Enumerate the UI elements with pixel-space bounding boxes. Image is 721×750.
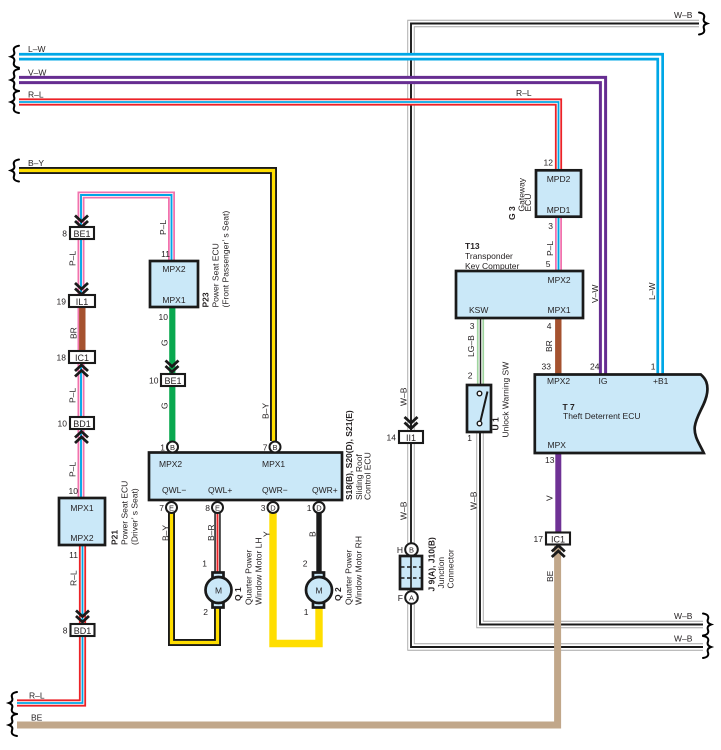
wire LG-B KSW to U1 [477,318,484,386]
svg-text:V–W: V–W [590,285,600,303]
wire R-L horizontal to MPD2 [19,102,559,171]
wire R-L bottom left from P21 [17,545,83,703]
svg-text:G: G [160,339,170,346]
svg-text:Quarter Power: Quarter Power [244,550,254,605]
svg-text:Window Motor LH: Window Motor LH [254,537,264,605]
chevron down above II1 [405,417,418,429]
svg-text:BR: BR [544,340,554,352]
svg-text:W–B: W–B [399,501,409,520]
svg-text:Quarter Power: Quarter Power [344,550,354,605]
svg-text:IC1: IC1 [551,535,565,545]
svg-text:QWL+: QWL+ [208,485,232,495]
svg-text:Key Computer: Key Computer [465,261,519,271]
svg-text:E: E [169,503,174,512]
svg-text:+B1: +B1 [653,376,669,386]
chevron down above BE1-2 green [166,361,179,373]
svg-text:1: 1 [467,433,472,443]
svg-text:7: 7 [159,503,164,513]
svg-text:11: 11 [161,249,170,259]
svg-text:BE: BE [545,570,555,582]
chevron down above IL1 [75,283,88,295]
squiggle R-L bottom left [9,692,17,714]
connector IC1 [57,351,95,363]
label S18 title [344,410,373,500]
connector BE1-2 [149,374,185,386]
box U1 Unlock Warning SW [467,371,491,444]
svg-text:24: 24 [590,362,600,372]
svg-text:M: M [315,586,322,596]
wire B QWR+ to motor Q2 top [316,512,321,574]
svg-text:2: 2 [303,559,308,569]
svg-text:B: B [170,443,175,452]
svg-text:MPX1: MPX1 [262,459,285,469]
wire V-W horizontal and vertical to IG [19,80,603,375]
svg-text:18: 18 [57,353,67,363]
svg-text:2: 2 [203,607,208,617]
svg-text:10: 10 [69,486,79,496]
svg-text:W–B: W–B [674,634,693,644]
svg-text:MPX2: MPX2 [70,533,93,543]
svg-text:R–L: R–L [29,691,45,701]
label Q1 title [233,537,264,605]
pin circle D2 [307,502,325,513]
wire L-W horizontal top and vertical to +B1 [19,57,660,375]
svg-text:V: V [545,495,555,501]
motor Q1 [202,559,231,618]
svg-text:12: 12 [544,158,554,168]
squiggle W-B top right [699,13,707,35]
wire Y QWR- to motor Q2 bottom [273,512,319,644]
svg-text:Q 1: Q 1 [233,587,243,601]
svg-text:33: 33 [542,362,552,372]
svg-text:M: M [215,586,222,596]
chevron down above BD1-2 [76,611,89,623]
chevron up below BD1 [75,432,88,444]
wire BE IC1 to bottom horizontal [17,546,558,725]
svg-text:IL1: IL1 [76,297,89,307]
svg-text:(Driver’ s Seat): (Driver’ s Seat) [130,488,140,545]
chevron up below IC1 [75,365,88,377]
squiggle L-W left [11,46,19,68]
svg-text:Transponder: Transponder [465,251,513,261]
svg-text:3: 3 [261,503,266,513]
wire W-B U1 to bottom right [480,431,703,625]
svg-text:BE1: BE1 [164,376,181,386]
svg-text:R–L: R–L [69,570,79,586]
svg-text:MPX: MPX [548,440,567,450]
svg-text:P–L: P–L [68,388,78,403]
pin circle B1 [160,442,178,453]
svg-text:1: 1 [202,559,207,569]
svg-text:13: 13 [545,455,555,465]
svg-text:7: 7 [263,443,268,453]
svg-text:R–L: R–L [28,90,44,100]
svg-text:MPD1: MPD1 [547,205,571,215]
svg-text:1: 1 [307,503,312,513]
svg-text:5: 5 [546,259,551,269]
chevron up below IC1-2 [552,546,565,558]
squiggle R-L left [11,91,19,113]
label P23 title [201,210,231,307]
svg-text:B–Y: B–Y [161,525,171,541]
wire B-Y QWL- to motor Q1 bottom [172,512,218,643]
squiggle V-W left [11,69,19,91]
svg-text:A: A [409,594,414,603]
svg-text:B: B [308,531,318,537]
svg-text:1: 1 [304,607,309,617]
wire W-B top horizontal and vertical to II1/junction [411,24,703,648]
box P23 Power Seat ECU (Front Passenger's Seat) [150,249,198,322]
svg-text:MPX1: MPX1 [548,305,571,315]
svg-text:B–Y: B–Y [28,158,44,168]
svg-text:J 9(A), J10(B): J 9(A), J10(B) [427,537,437,591]
svg-text:10: 10 [58,419,68,429]
svg-text:Control ECU: Control ECU [363,452,373,500]
svg-text:D: D [270,503,276,512]
svg-text:IC1: IC1 [75,353,89,363]
connector IL1 [57,295,95,307]
svg-text:P23: P23 [201,292,211,307]
svg-text:ECU: ECU [523,194,533,212]
svg-text:W–B: W–B [399,387,409,406]
box S18 Sliding Roof Control ECU [149,453,342,501]
svg-text:MPX2: MPX2 [162,264,185,274]
svg-text:MPX2: MPX2 [547,376,570,386]
chevron down above BE1 [75,216,88,228]
svg-text:B: B [409,546,414,555]
svg-text:2: 2 [468,371,473,381]
wire P-L left chain vertical [81,195,172,498]
svg-text:19: 19 [57,297,67,307]
svg-text:L–W: L–W [647,283,657,300]
svg-text:Y: Y [262,531,272,537]
connector IC1-2 [534,533,570,545]
svg-text:MPD2: MPD2 [547,174,571,184]
svg-text:MPX2: MPX2 [548,275,571,285]
pin circle B2 [263,442,281,453]
squiggle W-B right upper [703,614,711,636]
wire G green P23 to BE1 to pin1(B) [169,306,175,443]
svg-text:Unlock Warning SW: Unlock Warning SW [501,362,511,438]
connector II1 [387,431,423,443]
svg-text:R–L: R–L [516,88,532,98]
pin circle E2 [205,502,223,513]
box T13 Transponder Key Computer [456,259,583,331]
svg-text:14: 14 [387,433,397,443]
svg-text:U 1: U 1 [491,417,501,431]
wire V T7 MPX to IC1 [555,452,561,533]
connector BD1-2 [63,624,95,636]
squiggle BE bottom left [9,714,17,736]
svg-text:P–L: P–L [68,462,78,477]
svg-text:D: D [316,503,322,512]
svg-text:3: 3 [470,321,475,331]
svg-text:3: 3 [548,221,553,231]
label T13 title [465,241,519,271]
svg-text:QWR−: QWR− [262,485,288,495]
svg-text:G: G [160,402,170,409]
wire B-Y horizontal to pin 7(B) [19,171,274,442]
svg-text:H: H [397,545,403,555]
svg-text:BD1: BD1 [73,419,91,429]
svg-text:10: 10 [149,376,159,386]
svg-text:MPX2: MPX2 [159,459,182,469]
svg-text:B: B [272,443,277,452]
svg-text:8: 8 [205,503,210,513]
svg-text:Connector: Connector [446,549,456,588]
svg-text:L–W: L–W [28,44,45,54]
label Q2 title [333,536,364,605]
svg-text:F: F [398,593,403,603]
motor Q2 [303,559,332,618]
svg-text:BE: BE [31,713,43,723]
svg-text:BR: BR [69,327,79,339]
svg-text:W–B: W–B [674,611,693,621]
svg-text:17: 17 [534,534,544,544]
pin circle D1 [261,502,279,513]
connector BD1 [58,417,94,429]
svg-text:MPX1: MPX1 [70,503,93,513]
svg-text:8: 8 [62,229,67,239]
svg-text:IG: IG [599,376,608,386]
svg-text:10: 10 [159,312,169,322]
svg-text:LG–B: LG–B [466,335,476,357]
wire B-R QWL+ to motor Q1 top [214,512,220,574]
svg-text:G 3: G 3 [507,206,517,220]
svg-text:QWR+: QWR+ [312,485,338,495]
squiggle B-Y left [11,160,19,182]
svg-text:Theft Deterrent ECU: Theft Deterrent ECU [563,411,640,421]
junction connector J9(A) J10(B) [397,543,422,604]
svg-text:T13: T13 [465,241,480,251]
svg-text:1: 1 [651,362,656,372]
box G3 Gateway ECU MPD [536,158,581,232]
svg-text:P–L: P–L [158,220,168,235]
box P21 Power Seat ECU (Driver's Seat) [59,486,105,560]
svg-text:8: 8 [63,626,68,636]
svg-text:BE1: BE1 [73,229,90,239]
svg-text:V–W: V–W [28,68,46,78]
squiggle W-B right lower [703,636,711,658]
svg-text:W–B: W–B [674,10,693,20]
svg-text:S18(B), S20(D), S21(E): S18(B), S20(D), S21(E) [344,410,354,500]
label U1 title [491,362,511,438]
box T7 Theft Deterrent ECU [535,362,708,466]
svg-text:P–L: P–L [545,241,555,256]
wire P-L MPD1 to T13 MPX2 [555,216,562,271]
svg-text:4: 4 [547,321,552,331]
svg-text:1: 1 [160,443,165,453]
svg-text:BD1: BD1 [74,626,92,636]
svg-text:Junction: Junction [436,557,446,589]
wire BR brown between IL1 and IC1 [79,306,85,352]
svg-text:P–L: P–L [68,251,78,266]
svg-text:11: 11 [69,550,78,560]
svg-text:Power Seat ECU: Power Seat ECU [211,243,221,307]
label P21 title [110,481,140,545]
connector BE1 [62,227,94,239]
svg-text:(Front Passenger’ s Seat): (Front Passenger’ s Seat) [221,210,231,307]
svg-text:B–R: B–R [206,524,216,541]
pin circle E1 [159,502,177,513]
wire BR T13 MPX1 to T7 MPX2 [555,318,561,375]
svg-text:W–B: W–B [469,491,479,510]
label G3 title [507,177,533,220]
svg-text:KSW: KSW [469,305,488,315]
svg-text:II1: II1 [406,433,416,443]
svg-text:Power Seat ECU: Power Seat ECU [120,481,130,545]
svg-text:P21: P21 [110,530,120,545]
svg-text:QWL−: QWL− [162,485,186,495]
svg-text:MPX1: MPX1 [162,295,185,305]
label J9 J10 title [427,537,456,591]
svg-text:Window Motor RH: Window Motor RH [354,536,364,605]
svg-text:B–Y: B–Y [261,403,271,419]
svg-text:Q 2: Q 2 [333,587,343,601]
svg-text:E: E [215,503,220,512]
